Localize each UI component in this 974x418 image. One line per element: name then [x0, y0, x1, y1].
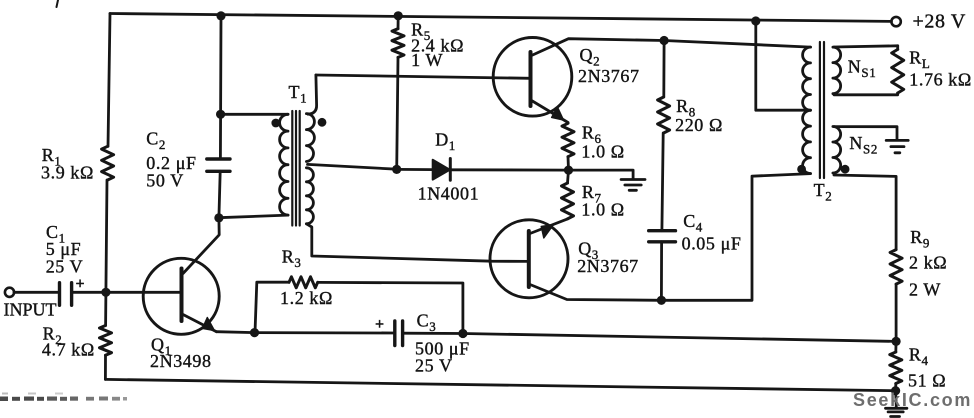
transistor Q2 circle: [493, 38, 572, 117]
svg-text:1N4001: 1N4001: [418, 184, 480, 204]
wire R6 bottom: [567, 157, 570, 170]
node top rail / C2 branch: [216, 11, 225, 20]
node R9 / R4 / C3 line: [892, 337, 901, 346]
svg-text:INPUT: INPUT: [4, 299, 57, 319]
resistor R1: [102, 146, 114, 180]
node C4 / Q3 collector / T2: [657, 296, 666, 305]
wire T1 primary bottom lead: [219, 215, 288, 218]
wire T1 secondary top lead to Q2 base: [308, 75, 317, 114]
diode D1: [433, 160, 450, 180]
wire R8 branch top: [662, 41, 665, 98]
wire bottom rail: [105, 379, 895, 390]
node top rail / R5: [394, 11, 403, 20]
svg-text:0.05 μF: 0.05 μF: [682, 234, 742, 254]
svg-text:1 W: 1 W: [411, 50, 443, 70]
svg-text:2N3767: 2N3767: [578, 66, 640, 86]
svg-text:+: +: [375, 316, 384, 333]
wire NS1 top lead to RL: [834, 46, 898, 47]
polarity dot T1 secondary: [318, 118, 327, 127]
svg-text:2 W: 2 W: [909, 279, 941, 299]
svg-text:25 V: 25 V: [415, 356, 453, 376]
node Q1 emitter / R3: [250, 328, 259, 337]
transistor Q3 circle: [490, 220, 568, 298]
svg-text:C2: C2: [146, 128, 166, 152]
svg-text:NS1: NS1: [848, 57, 877, 81]
wire Q1 emitter to C3: [217, 332, 395, 333]
wire Q3 collector to T2 primary bottom: [661, 174, 810, 301]
svg-text:2N3498: 2N3498: [150, 351, 212, 371]
capacitor C1: [60, 283, 72, 306]
transistor Q1 circle: [143, 258, 219, 334]
svg-text:220 Ω: 220 Ω: [675, 115, 723, 135]
ground symbol G1: [621, 180, 645, 191]
transformer T2 secondary NS2 winding: [833, 127, 841, 174]
wire Q2 collector: [532, 39, 665, 56]
transformer T1 secondary upper winding: [306, 114, 314, 162]
wire ground lead at R6/R7 node: [569, 170, 634, 179]
transistor Q2 base bar: [529, 52, 533, 106]
node C3 / R3: [458, 329, 467, 338]
transistor Q3 base bar: [527, 231, 531, 287]
svg-text:50 V: 50 V: [146, 170, 184, 190]
capacitor C2: [207, 159, 230, 171]
transformer T2 core: [820, 42, 824, 178]
svg-text:Q2: Q2: [580, 45, 601, 69]
svg-text:51 Ω: 51 Ω: [908, 370, 946, 390]
svg-text:RL: RL: [909, 48, 930, 72]
wire T1 center tap to D1 node: [308, 164, 397, 169]
svg-text:C4: C4: [683, 211, 703, 235]
wire C3 to R4 node: [403, 333, 896, 341]
resistor R6: [562, 123, 574, 156]
wire Q2 base: [316, 75, 531, 78]
svg-text:C3: C3: [417, 311, 437, 335]
wire R4 top lead: [894, 341, 897, 352]
wire C4 bottom: [660, 242, 663, 300]
wire RL bottom to NS1 bottom: [834, 46, 898, 95]
resistor R2: [100, 326, 112, 356]
wire R7 top: [568, 170, 569, 183]
node R5 / T1 tap / D1: [392, 165, 401, 174]
wire D1 anode lead: [397, 168, 433, 171]
resistor R7: [562, 183, 574, 219]
resistor R3: [289, 277, 318, 288]
terminal +28V: [891, 17, 900, 26]
transformer T1 core: [292, 111, 299, 226]
wire R4 bottom to ground: [894, 384, 898, 408]
wire R8 to C4: [662, 133, 663, 231]
transformer T1 primary winding: [280, 114, 288, 215]
svg-text:R3: R3: [282, 247, 302, 271]
wire C2 branch vertical: [219, 16, 221, 218]
wire left vertical (R1/R2 branch): [105, 14, 110, 380]
svg-text:T1: T1: [289, 82, 308, 106]
node Q1 base / C1 / R1 / R2: [101, 288, 110, 297]
wire D1 cathode to R6/R7 node: [450, 168, 568, 171]
resistor R5: [392, 29, 404, 58]
transformer T1 secondary lower winding: [306, 168, 313, 224]
scan artifact cropped caption bottom-left: [0, 393, 127, 402]
arrow Q1 emitter: [202, 318, 214, 331]
svg-text:2N3767: 2N3767: [577, 256, 639, 276]
ground symbol G2: [886, 140, 908, 152]
node C2 bottom / T1 primary bottom / Q1 collector: [214, 213, 223, 222]
transistor Q1 base bar: [180, 269, 184, 322]
stray scan tick top-left: [57, 0, 59, 7]
wire NS2 top lead to ground: [834, 127, 897, 140]
polarity dot T2 primary: [797, 165, 806, 174]
wire Q1 collector: [183, 218, 219, 274]
wire R5 branch: [397, 16, 399, 170]
node R4 / bottom rail / ground: [891, 386, 900, 395]
wire Q2 collector node to T2 primary top: [664, 41, 810, 48]
transformer T2 secondary NS1 winding: [833, 47, 841, 94]
wire Q3 emitter to R7: [530, 219, 568, 234]
node C2 top / T1 primary top: [216, 110, 225, 119]
arrow Q2 emitter: [552, 107, 564, 120]
svg-text:D1: D1: [435, 130, 456, 154]
svg-text:1.2 kΩ: 1.2 kΩ: [280, 288, 333, 308]
svg-text:1.0 Ω: 1.0 Ω: [581, 141, 624, 161]
node Q2 collector / R8 / T2: [660, 36, 669, 45]
arrow Q3 emitter: [541, 225, 553, 238]
wire input to C1: [14, 291, 60, 294]
wire NS2 bottom lead to R9: [834, 175, 896, 250]
resistor R8: [658, 97, 670, 133]
wire R9 bottom to node: [895, 284, 898, 341]
capacitor C4: [649, 231, 676, 242]
ground symbol G3: [886, 408, 907, 416]
wire +28V center tap drop: [756, 21, 811, 110]
svg-text:+: +: [76, 276, 85, 293]
svg-text:+28 V: +28 V: [913, 11, 966, 33]
wire T1 primary top lead: [221, 113, 288, 116]
polarity dot T1 primary: [271, 119, 280, 128]
svg-text:3.9 kΩ: 3.9 kΩ: [41, 163, 94, 183]
wire top supply rail: [110, 14, 891, 22]
terminal input: [5, 288, 14, 297]
capacitor C3: [395, 321, 403, 346]
polarity dot T2 secondary NS2: [841, 165, 850, 174]
resistor RL: [892, 49, 904, 93]
resistor R9: [890, 250, 902, 285]
node R6 / R7 / ground: [564, 166, 573, 175]
wire C1 to Q1 base: [72, 291, 182, 294]
svg-text:R9: R9: [910, 227, 930, 251]
svg-text:4.7 kΩ: 4.7 kΩ: [42, 339, 95, 359]
transformer T2 primary winding: [803, 47, 811, 173]
resistor R4: [890, 352, 902, 384]
svg-text:SeekIC.com: SeekIC.com: [853, 390, 972, 410]
svg-text:T2: T2: [814, 180, 833, 204]
svg-text:1.76 kΩ: 1.76 kΩ: [909, 70, 972, 90]
wire Q3 collector: [530, 285, 661, 301]
svg-text:1.0 Ω: 1.0 Ω: [581, 200, 624, 220]
wire Q1 emitter: [183, 315, 217, 332]
svg-text:2 kΩ: 2 kΩ: [909, 253, 947, 273]
wire T1 secondary bottom to Q3 base: [306, 224, 528, 262]
wire R3 branch: [255, 282, 463, 333]
svg-text:25 V: 25 V: [46, 257, 84, 277]
wire Q2 emitter: [532, 101, 569, 123]
node top rail / T2 tap: [751, 16, 760, 25]
svg-text:NS2: NS2: [849, 133, 878, 157]
svg-text:R4: R4: [909, 345, 929, 369]
